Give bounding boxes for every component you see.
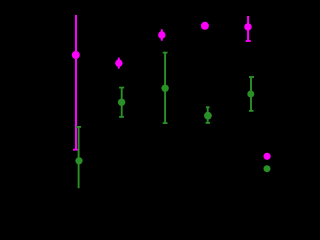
magenta point 5 — [244, 23, 251, 30]
green point 5 — [247, 91, 254, 98]
magenta key marker — [264, 153, 271, 160]
green point 4 — [204, 112, 212, 120]
magenta series error bar 1 (clipped at plot top) — [73, 15, 79, 150]
green series error bar 4 — [206, 107, 210, 123]
magenta series error bar 2 — [118, 58, 120, 69]
magenta point 2 — [115, 59, 122, 66]
green key marker — [264, 165, 271, 172]
magenta series error bar 3 — [161, 29, 163, 40]
green point 3 — [161, 85, 168, 92]
green point 1 — [75, 157, 82, 164]
magenta point 1 — [72, 51, 80, 59]
green series error bar 1 (clipped at plot bottom) — [76, 126, 81, 188]
magenta point 4 — [201, 22, 209, 30]
green series error bar 3 — [163, 53, 168, 124]
green series error bar 2 — [119, 88, 124, 117]
magenta point 3 — [158, 31, 165, 38]
green point 2 — [118, 99, 125, 106]
green series error bar 5 — [249, 77, 254, 111]
magenta series error bar 5 (clipped at plot top) — [246, 16, 251, 41]
